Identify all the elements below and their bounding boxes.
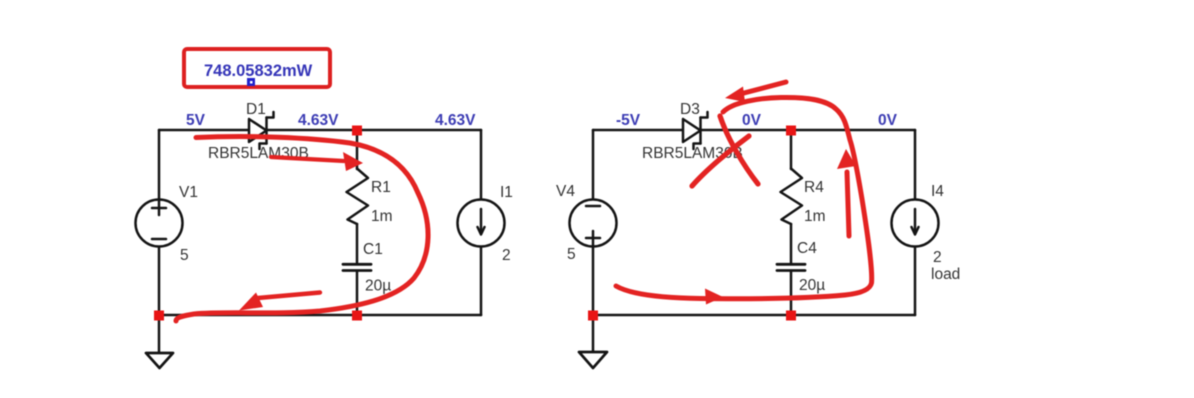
wire left vertical upper (top rail to V4)	[592, 130, 595, 200]
annotation: arrowhead on bottom rail pointing right (right circuit)	[705, 289, 723, 305]
node junction square bottom left (ground node)	[154, 311, 164, 321]
svg-text:1m: 1m	[371, 208, 393, 225]
wire top right (diode D3 cathode to node 0V, across to I4)	[701, 129, 915, 132]
svg-text:1m: 1m	[804, 208, 826, 225]
svg-text:4.63V: 4.63V	[298, 112, 339, 129]
wire C1 bottom to bottom rail	[356, 272, 359, 316]
svg-text:-5V: -5V	[616, 112, 641, 129]
voltage source V4 (inverted polarity)	[570, 200, 617, 247]
wire top right (diode D1 cathode to node 4.63V, across to I1)	[267, 129, 481, 132]
wire left vertical upper (top rail to V1 plus)	[158, 130, 161, 200]
svg-text:I4: I4	[931, 183, 944, 200]
text anchor marker (blue square)	[247, 78, 255, 86]
svg-text:2: 2	[502, 247, 511, 264]
wire C4 bottom to bottom rail	[790, 272, 793, 316]
svg-text:2: 2	[933, 249, 942, 266]
svg-text:D1: D1	[246, 101, 266, 118]
svg-text:0V: 0V	[742, 112, 762, 129]
annotation: long current-path curve left circuit	[176, 137, 428, 321]
ground symbol right	[592, 315, 595, 352]
node junction square bottom middle right circuit	[786, 311, 796, 321]
svg-text:I1: I1	[500, 184, 513, 201]
wire middle branch upper (node to R1 top)	[356, 130, 359, 169]
annotation: arrow pointing left at D3	[744, 82, 786, 93]
wire R4 bottom to C4 top	[790, 224, 793, 264]
svg-text:0V: 0V	[878, 112, 898, 129]
wire bottom rail left circuit	[159, 314, 481, 317]
annotation: arrow along bottom rail pointing left (left circuit)	[258, 293, 320, 299]
svg-text:C1: C1	[363, 241, 383, 258]
wire right vertical lower (I4 to bottom rail)	[914, 246, 917, 315]
resistor R4	[781, 169, 803, 225]
svg-text:C4: C4	[797, 240, 817, 257]
node junction square top middle right circuit	[786, 126, 796, 136]
svg-text:load: load	[931, 266, 960, 283]
current source I1	[458, 200, 505, 247]
current source I4	[892, 200, 939, 247]
svg-text:4.63V: 4.63V	[435, 112, 476, 129]
capacitor C4	[777, 264, 805, 270]
annotation: long current-path curve right circuit	[616, 97, 872, 298]
wire right vertical upper (top rail to I4)	[914, 130, 917, 200]
wire left vertical lower (V4 to bottom rail)	[592, 246, 595, 315]
svg-text:5: 5	[180, 247, 189, 264]
diode D3 (schottky RBR5LAM30B)	[683, 112, 708, 149]
wire top left (node 5V to diode D1 anode)	[159, 129, 249, 132]
svg-text:R1: R1	[371, 179, 391, 196]
svg-text:V4: V4	[556, 183, 575, 200]
resistor R1	[347, 169, 369, 225]
node junction square bottom left right circuit (ground node)	[588, 311, 598, 321]
wire right vertical lower (I1 to bottom rail)	[480, 246, 483, 315]
annotation: X cross stroke 2 over D3 region	[692, 136, 749, 186]
wire left vertical lower (V1 minus to bottom rail)	[158, 246, 161, 315]
diode D1 (schottky RBR5LAM30B)	[249, 112, 274, 149]
svg-text:5V: 5V	[186, 112, 206, 129]
annotation: arrow into R1 branch (left circuit)	[271, 157, 344, 161]
measurement box (red) with power reading	[184, 49, 330, 87]
annotation: up arrow beside R4 branch	[847, 172, 849, 236]
wire right vertical upper (top rail to I1)	[480, 130, 483, 200]
voltage source V1	[136, 200, 183, 247]
svg-text:R4: R4	[804, 179, 824, 196]
svg-text:V1: V1	[179, 184, 198, 201]
ground symbol left	[158, 315, 161, 353]
svg-text:20µ: 20µ	[799, 277, 825, 294]
wire middle branch upper (node to R4 top)	[790, 130, 793, 169]
svg-text:748.05832mW: 748.05832mW	[204, 62, 313, 80]
node junction square top middle left circuit	[352, 126, 362, 136]
wire R1 bottom to C1 top	[356, 224, 359, 264]
svg-text:5: 5	[567, 246, 576, 263]
svg-text:D3: D3	[680, 101, 700, 118]
node junction square bottom middle left circuit	[352, 311, 362, 321]
svg-text:20µ: 20µ	[365, 278, 391, 295]
capacitor C1	[343, 264, 371, 270]
annotation: X cross stroke 1 over D3 region	[720, 116, 758, 184]
wire bottom rail right circuit	[593, 314, 915, 317]
wire top left (node -5V to diode D3 anode)	[593, 129, 683, 132]
